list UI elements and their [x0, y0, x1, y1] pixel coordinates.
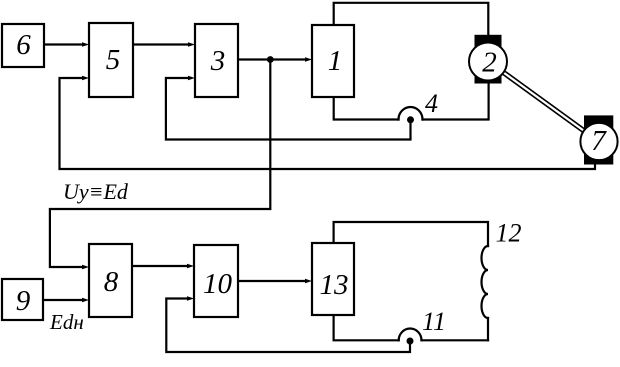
shaft between motor 2 and tacho 7	[504, 73, 584, 131]
arrowhead into 10 input2	[187, 296, 194, 301]
wire 10 to 13	[238, 280, 307, 282]
svg-text:10: 10	[203, 268, 233, 300]
svg-text:6: 6	[16, 29, 31, 61]
arrowhead into 1	[305, 57, 312, 62]
wire 8 to 10	[132, 265, 189, 267]
wire 3 to 1	[238, 58, 307, 60]
wire bottom loop 13-12	[334, 315, 399, 340]
svg-text:4: 4	[425, 89, 438, 118]
svg-text:13: 13	[320, 269, 349, 301]
block 5	[89, 23, 133, 97]
node 4 bump	[399, 107, 423, 120]
block 10	[194, 245, 238, 317]
arrowhead into 10 input1	[187, 264, 194, 269]
wire node 11 feedback to block 10	[166, 299, 410, 353]
brush top of tacho 7	[584, 115, 613, 130]
wire block1 top to motor 2 top	[334, 3, 489, 36]
wire segment node4 to motor2	[423, 82, 489, 120]
wire block13 top to coil 12 top	[334, 222, 488, 246]
arrowhead into 5 input2	[82, 76, 89, 81]
dot node 4	[407, 116, 414, 123]
block 3	[195, 24, 238, 97]
wire 9 to 8	[43, 299, 84, 301]
coil L 12	[482, 246, 488, 318]
dot node 11	[407, 338, 414, 345]
svg-text:1: 1	[328, 45, 343, 77]
wire node 4 feedback to block 3	[166, 78, 411, 140]
arrowhead into 13	[305, 279, 312, 284]
svg-text:2: 2	[482, 47, 497, 79]
svg-text:9: 9	[16, 285, 31, 317]
block 9	[2, 279, 43, 320]
brush bottom of tacho 7	[584, 153, 613, 165]
arrowhead into 5 input1	[82, 42, 89, 47]
svg-text:5: 5	[106, 44, 121, 76]
block 13	[312, 243, 354, 315]
node 11 bump	[399, 329, 422, 341]
wire tacho 7 feedback to block 5	[60, 78, 596, 169]
wire segment node11 to coil	[422, 339, 489, 341]
svg-text:8: 8	[104, 266, 119, 298]
tacho 7 circle	[580, 123, 617, 160]
arrowhead into 3 input1	[188, 42, 195, 47]
motor 2 circle	[469, 43, 507, 81]
arrowhead into 8 input1	[82, 265, 89, 270]
wire 5 to 3	[133, 43, 190, 45]
arrowhead into 3 input2	[188, 76, 195, 81]
block 8	[89, 244, 132, 317]
wire 6 to 5	[44, 43, 84, 45]
svg-text:11: 11	[422, 307, 446, 336]
svg-text:Uy≡Ed: Uy≡Ed	[63, 179, 129, 204]
svg-text:12: 12	[496, 219, 522, 248]
wire junction to block 8 (Uy line)	[50, 60, 270, 268]
junction dot node A	[267, 56, 274, 63]
svg-text:7: 7	[591, 125, 607, 157]
brush top of motor 2	[475, 35, 502, 50]
arrowhead into 8 input2	[82, 298, 89, 303]
wire coil 12 bottom	[487, 318, 489, 340]
brush bottom of motor 2	[475, 73, 502, 84]
block 6	[2, 24, 44, 67]
svg-text:3: 3	[210, 45, 226, 77]
svg-text:Edн: Edн	[49, 310, 84, 334]
block 1	[312, 25, 354, 97]
wire block1 bottom to motor 2 bottom	[334, 97, 399, 120]
